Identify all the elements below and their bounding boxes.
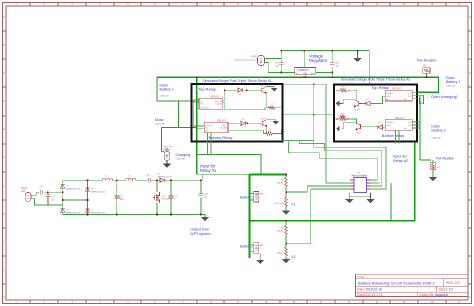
wire v2 node to ic (286, 189, 351, 244)
resistor R2a 8Mohm (285, 221, 287, 244)
wire battery bus top (261, 173, 286, 175)
wire collector2 to gnd (267, 119, 276, 121)
node Input for Relay #2 (net box) (414, 143, 416, 222)
wire v1 node to ic (286, 186, 352, 192)
diode D_b (241, 121, 246, 125)
capacitor C2 (330, 63, 335, 65)
wire reg vout (316, 71, 332, 73)
wire second left vertical (192, 100, 194, 129)
svg-text:8Mohm: 8Mohm (277, 182, 284, 184)
svg-text:Battery 2: Battery 2 (431, 129, 445, 133)
relay RELAY3 (385, 90, 412, 101)
ground mcu right (367, 193, 374, 203)
svg-text:Bot-T: Bot-T (222, 124, 228, 127)
wire ic right stub (371, 182, 380, 184)
svg-text:Bottom Relay: Bottom Relay (209, 135, 233, 140)
connector VAC1 Coil (25, 193, 31, 202)
wire source top (265, 58, 282, 60)
svg-text:C: C (3, 72, 5, 75)
diode D_rail inline (160, 178, 164, 182)
wire crossing top (283, 83, 326, 85)
svg-text:Battery 1: Battery 1 (160, 88, 174, 92)
capacitor C_rail inline (148, 178, 150, 182)
inductor L1 (102, 179, 113, 181)
wire coil bottom path (31, 199, 63, 205)
svg-text:MBRS5200LT3G: MBRS5200LT3G (66, 212, 81, 214)
node Motor (net box) (162, 128, 197, 152)
svg-text:Out-Bot: Out-Bot (386, 92, 393, 95)
ground flag on top node (354, 51, 360, 62)
svg-text:BAT?: BAT? (260, 193, 265, 196)
wire collector to gnd (266, 86, 274, 88)
transistor Q_d (356, 123, 364, 130)
diode D4 bridge (85, 208, 89, 212)
inductor L2 (126, 179, 137, 181)
svg-text:NO: NO (408, 93, 411, 95)
svg-text:MBRS5200LT3G: MBRS5200LT3G (91, 191, 106, 193)
relay RELAY1 (199, 98, 222, 109)
svg-text:Input for: Input for (393, 155, 408, 159)
wire relay2 out row (228, 122, 260, 124)
wire top row (225, 89, 259, 91)
svg-text:H: H (3, 213, 5, 216)
svg-text:NO: NO (408, 122, 411, 124)
svg-text:Battery 1: Battery 1 (446, 80, 460, 84)
ground below pwr resistor2 (430, 178, 437, 181)
svg-text:Battery Balancing Circuit Sche: Battery Balancing Circuit Schematic Draf… (358, 281, 435, 286)
svg-text:Relay #1: Relay #1 (200, 168, 217, 173)
wire regulator top node (281, 50, 369, 52)
svg-text:Out-Top: Out-Top (214, 100, 222, 103)
relay RELAY4 (385, 119, 412, 130)
svg-text:Coil: Coil (403, 128, 407, 130)
wire resistor2 ends (228, 130, 281, 134)
wire resistor2 to bjt2 (351, 119, 356, 124)
svg-text:Out-Bot: Out-Bot (215, 103, 222, 106)
wire relay1 out loop (222, 90, 225, 110)
svg-text:Bot-Bot: Bot-Bot (220, 126, 227, 129)
svg-text:1 Item 38: 1 Item 38 (431, 137, 441, 140)
svg-text:V2: V2 (292, 255, 296, 259)
svg-text:Out-T: Out-T (386, 124, 392, 127)
voltage source BT1 (258, 56, 265, 66)
svg-text:EasyEDA V5.1.14: EasyEDA V5.1.14 (357, 293, 383, 297)
svg-text:Top Relay: Top Relay (371, 85, 389, 90)
wire bridge left column (62, 180, 64, 214)
wire drain battery2 feed (420, 95, 431, 160)
node Input for Relay #1 (net box) (197, 155, 261, 175)
svg-text:Pwr Resistor: Pwr Resistor (436, 157, 455, 161)
svg-text:RELAY1: RELAY1 (211, 96, 221, 99)
wire relay2 left pins (193, 126, 204, 129)
transistor Q_b (260, 120, 267, 127)
svg-text:WPT system: WPT system (190, 232, 210, 236)
node Drain Battery 1 (left net box) (157, 77, 199, 101)
wire resistor to bjt (352, 90, 357, 99)
capacitor C_shunt (45, 192, 50, 205)
wire ladder L3 (299, 142, 381, 187)
svg-text:Drawn By: aegalanti: Drawn By: aegalanti (420, 293, 449, 297)
wire relay3 right pins (412, 92, 423, 98)
wire cap1 branch (280, 51, 282, 73)
svg-text:Motor: Motor (155, 118, 165, 122)
wire pwr resistor2 stub (432, 160, 434, 178)
svg-text:1 Item 27: 1 Item 27 (446, 85, 456, 88)
wire crossing mid (283, 114, 334, 116)
svg-text:Out-Bot: Out-Bot (386, 121, 393, 124)
wire ladder L4 (326, 84, 354, 183)
ground left bottom box2 (336, 126, 339, 131)
wire battery1 box to motor box (178, 101, 180, 128)
resistor R_b (266, 132, 273, 135)
resistor R_c (336, 89, 352, 92)
resistor R2b 1Mohm (285, 244, 287, 260)
svg-text:1 Item 27: 1 Item 27 (160, 94, 170, 97)
junction dots box1 (196, 76, 248, 124)
wire reg mid branch (303, 51, 305, 68)
svg-text:Battery 1: Battery 1 (240, 196, 253, 200)
capacitor C16 shunt (116, 180, 118, 214)
battery BAT1 (254, 192, 259, 203)
svg-text:+VDC: +VDC (251, 56, 258, 59)
diode D3 bridge (85, 187, 89, 191)
wire mid bus thick (250, 220, 415, 222)
wire right stub verticals (419, 95, 423, 104)
svg-text:MBRS5200LT3G: MBRS5200LT3G (91, 212, 106, 214)
wire bjt base to diode (362, 96, 385, 103)
svg-text:Coil+/Coil-: Coil+/Coil- (200, 107, 210, 109)
svg-text:1Mohm: 1Mohm (277, 253, 284, 255)
svg-text:Simulated Single Pole Triple T: Simulated Single Pole Triple Throw Relay… (202, 79, 271, 83)
wire relay1 left pins (193, 100, 199, 103)
relay box 1 frame (192, 84, 283, 142)
svg-text:20u: 20u (120, 198, 125, 201)
title block (356, 274, 469, 296)
svg-text:Sheet: 1/1: Sheet: 1/1 (439, 288, 454, 292)
wire relay4 right pins (412, 122, 420, 128)
junction dots regulator (280, 50, 358, 78)
wire bjt collector left to ground (341, 100, 354, 104)
svg-text:D: D (469, 100, 471, 103)
svg-text:Pwr Resistor: Pwr Resistor (417, 58, 437, 62)
svg-text:Simulated Single Pole Triple T: Simulated Single Pole Triple Throw Relay… (341, 78, 410, 82)
svg-text:G: G (3, 185, 5, 188)
svg-text:MBRS5200LT3G: MBRS5200LT3G (66, 188, 81, 190)
wire resistor right up (275, 107, 281, 109)
wire ladder L1 (281, 84, 386, 189)
svg-text:Regulator: Regulator (309, 58, 328, 63)
wire bridge right column (87, 180, 89, 214)
svg-text:BAT?: BAT? (260, 244, 265, 247)
svg-text:V1: V1 (292, 203, 296, 207)
svg-text:Vout: Vout (311, 72, 315, 75)
svg-text:Date: 2018-10-18: Date: 2018-10-18 (357, 288, 382, 292)
svg-text:Off: Off (200, 104, 203, 106)
resistor R1b 470 kohm (285, 192, 287, 211)
svg-text:H: H (469, 213, 471, 216)
svg-text:Charging: Charging (176, 153, 191, 157)
relay RELAY2 (204, 122, 228, 133)
svg-text:Coil: Coil (21, 190, 26, 193)
resistor R_a (268, 106, 275, 109)
svg-text:C: C (469, 72, 471, 75)
ground below R2b (283, 260, 290, 263)
wire input1 to rectifier (202, 174, 204, 180)
wire coil top path (31, 192, 63, 195)
wire bjt2 collector left to ground (341, 123, 356, 129)
wire battery1 stubs (250, 194, 254, 201)
svg-text:G: G (469, 185, 471, 188)
transistor Q_c (354, 100, 362, 107)
svg-text:Vin: Vin (295, 73, 298, 75)
wire thick vertical left (196, 77, 198, 174)
resistor R1a 8Mohm (285, 174, 287, 197)
wire pwr resistor stub (425, 73, 427, 77)
wire resistor left to relay (225, 108, 268, 110)
diode D2 bridge (60, 208, 64, 212)
wire dc top rail (63, 179, 203, 181)
svg-text:TITLE:: TITLE: (357, 275, 365, 279)
svg-text:IRF540: IRF540 (162, 199, 169, 201)
capacitor C_series (41, 190, 43, 194)
svg-text:RELAY3: RELAY3 (393, 88, 403, 91)
ground mcu left (349, 196, 370, 198)
wire reg gnd stub (304, 74, 306, 77)
svg-text:1 Item 38: 1 Item 38 (176, 158, 186, 161)
ground below R1b (283, 211, 290, 214)
wire battery2 stubs (250, 245, 254, 252)
svg-text:Top Relay: Top Relay (198, 87, 216, 92)
diode D_c (365, 101, 370, 105)
ground below battery2 (257, 253, 264, 263)
ground left top box2 (336, 101, 341, 106)
battery BAT2 (254, 243, 259, 254)
svg-text:D: D (3, 100, 5, 103)
wire source bottom to reg Vin (265, 63, 295, 73)
diode D_d (378, 125, 383, 129)
microcontroller U3 (354, 178, 367, 193)
ground below motor (164, 160, 171, 167)
wire ladder L2 (289, 142, 378, 181)
wire emitter down to resistor (265, 94, 266, 108)
svg-text:NO: NO (205, 131, 208, 133)
svg-text:← Open (charging): ← Open (charging) (426, 95, 457, 99)
svg-text:Coil: Coil (403, 99, 407, 101)
relay box 2 frame (334, 85, 417, 142)
capacitor C_mid shunt (170, 180, 172, 214)
wire main top rail (157, 76, 439, 78)
svg-text:MBRS5200LT3G: MBRS5200LT3G (158, 176, 173, 178)
wire bridge mid (63, 199, 88, 201)
svg-text:15-24V External Source: 15-24V External Source (234, 58, 258, 61)
diode D_a (238, 88, 243, 92)
transistor Q_a (259, 87, 266, 94)
svg-text:470 kohm: 470 kohm (274, 203, 284, 205)
capacitor C_out shunt (200, 180, 202, 214)
svg-text:Bottom relay: Bottom relay (382, 133, 404, 138)
wire dc bottom rail (63, 214, 205, 216)
ground bottom rail (202, 215, 209, 221)
voltage regulator U2 L7805CV (295, 68, 316, 75)
wire rail right drop (418, 77, 439, 93)
wire relay2 coil drops (208, 133, 212, 155)
capacitor C1 (279, 62, 284, 67)
power resistor R_pwr1 (423, 68, 430, 74)
wire cap2 branch (331, 51, 333, 78)
ground top right box1 (272, 87, 277, 92)
wire bjt2 base to diode2 (364, 126, 385, 129)
junction dots rectifier (47, 180, 202, 216)
svg-text:REV: 2.0: REV: 2.0 (446, 281, 460, 285)
motor M1 (164, 152, 170, 161)
svg-text:8Mohm: 8Mohm (277, 231, 284, 233)
wire emitter2 down (266, 127, 267, 134)
mosfet Q1 (156, 180, 158, 214)
svg-text:Relay #2: Relay #2 (393, 159, 408, 163)
svg-text:Microcontroller: Microcontroller (352, 175, 368, 178)
svg-text:L7805CV: L7805CV (297, 68, 309, 72)
svg-text:1 Item 38: 1 Item 38 (155, 122, 165, 125)
diode D1 bridge (60, 184, 64, 188)
ground bottom right box1 (273, 120, 278, 124)
wire battery stack vertical (249, 174, 251, 258)
wire relay4 coil drops (396, 130, 400, 143)
junction dots ladder (313, 83, 315, 115)
resistor R_d (336, 115, 351, 120)
svg-text:Out-T: Out-T (386, 95, 392, 98)
wire relay2 supply drop (368, 51, 370, 85)
wire motor top (162, 148, 167, 152)
junction dots battery (249, 174, 287, 245)
svg-text:RELAY2: RELAY2 (217, 119, 227, 122)
svg-text:RELAY4: RELAY4 (395, 117, 405, 120)
